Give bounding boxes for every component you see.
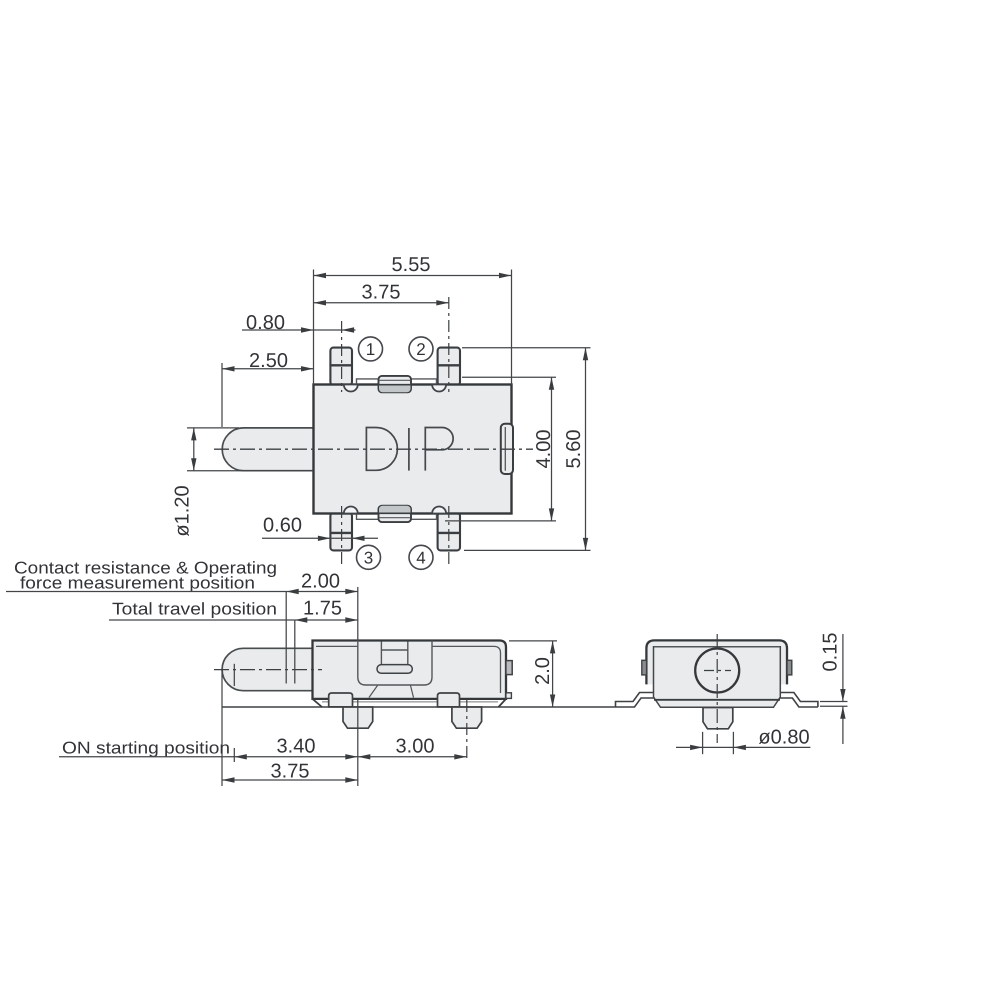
pin 4 xyxy=(438,513,460,550)
dimension Ø1.20 xyxy=(187,428,313,471)
dimension 0.15 xyxy=(820,634,848,744)
leader total travel xyxy=(109,619,295,621)
right terminal bracket xyxy=(780,693,818,708)
bottom face line xyxy=(322,701,498,703)
pin 2 centerline xyxy=(448,297,450,392)
svg-text:0.60: 0.60 xyxy=(263,515,302,537)
cover inner line top xyxy=(316,646,501,693)
ON start reference vertical xyxy=(233,748,235,762)
left terminal bracket xyxy=(616,693,655,708)
horizontal centerline (top view) xyxy=(214,448,533,450)
total travel position line xyxy=(294,620,296,684)
left solder pin (side view) xyxy=(343,707,373,728)
extension line shaft tip (top view) xyxy=(221,363,223,427)
dimension Ø0.80 xyxy=(676,732,810,754)
SIDE VIEW GROUP xyxy=(6,559,616,787)
dimension 3.40 xyxy=(234,754,357,759)
body bottom chamfer left xyxy=(313,699,323,707)
pin (end view) xyxy=(703,708,733,729)
svg-text:5.55: 5.55 xyxy=(392,254,431,276)
dimension 5.55 xyxy=(314,273,512,278)
DIP marking letter D xyxy=(366,428,397,471)
svg-text:4.00: 4.00 xyxy=(533,430,555,469)
dimension 2.50 xyxy=(222,366,314,371)
dimension 1.75 xyxy=(295,617,358,622)
pin 1 centerline xyxy=(341,321,343,392)
top center tab xyxy=(379,376,412,392)
svg-text:2: 2 xyxy=(416,340,425,359)
circle vertical centerline xyxy=(716,634,718,743)
svg-text:3.75: 3.75 xyxy=(362,282,401,304)
leader ON starting xyxy=(59,756,234,758)
notch at pin 3 xyxy=(344,507,358,514)
shaft centerline (side view) xyxy=(214,669,322,671)
pin 2 xyxy=(438,348,460,385)
svg-text:1.75: 1.75 xyxy=(303,598,342,620)
switch body (top view) xyxy=(314,385,512,514)
svg-text:Total travel position: Total travel position xyxy=(112,600,277,619)
svg-text:ø0.80: ø0.80 xyxy=(758,727,809,749)
circle horizontal center tick xyxy=(704,670,731,672)
svg-text:2.00: 2.00 xyxy=(301,571,340,593)
bottom edge step line xyxy=(357,514,437,520)
DIP marking letter P xyxy=(425,428,453,471)
svg-text:3.00: 3.00 xyxy=(396,736,435,758)
cover recess (U shape) xyxy=(358,641,432,686)
actuator shaft (side view) xyxy=(222,648,312,690)
TOP VIEW GROUP xyxy=(172,254,591,569)
shaft tip center tick xyxy=(233,664,235,686)
cover (end view) xyxy=(646,640,787,684)
svg-text:1: 1 xyxy=(366,340,375,359)
right boss xyxy=(438,693,460,707)
notch at pin 2 xyxy=(432,385,446,392)
right edge tab (side view) xyxy=(506,661,512,675)
svg-text:3.75: 3.75 xyxy=(271,761,310,783)
body (side view) xyxy=(313,641,507,699)
right solder pin (side view) xyxy=(452,707,482,728)
cover seam line (end view) xyxy=(654,646,780,648)
svg-text:3.40: 3.40 xyxy=(277,736,316,758)
right pin centerline xyxy=(466,700,468,762)
dimension 3.75 (top) xyxy=(314,300,449,305)
seating plane reference line xyxy=(222,706,616,708)
circled pin number 4 xyxy=(409,545,433,569)
dimension 0.60 xyxy=(262,536,378,541)
actuator circle (end view) xyxy=(695,649,739,693)
pin 3 centerline xyxy=(341,506,343,566)
body bottom edge (end view) xyxy=(654,699,780,701)
dimension 3.75 (bottom) xyxy=(222,777,358,782)
contact resistance position line xyxy=(285,592,287,684)
circled pin number 2 xyxy=(409,337,433,361)
dimension 2.00 xyxy=(286,589,358,594)
extension line body left edge xyxy=(313,270,315,385)
body base (end view) xyxy=(654,647,781,708)
recess lower flank left xyxy=(369,686,378,698)
circled pin number 1 xyxy=(359,337,383,361)
svg-text:3: 3 xyxy=(364,549,373,568)
body bottom chamfer right xyxy=(499,699,507,707)
bottom center tab xyxy=(379,506,412,522)
button stadium xyxy=(377,665,412,674)
svg-text:2.0: 2.0 xyxy=(532,657,554,685)
svg-text:0.15: 0.15 xyxy=(820,633,842,672)
notch at pin 4 xyxy=(432,507,446,514)
DIP marking letter I xyxy=(408,428,410,471)
svg-text:5.60: 5.60 xyxy=(563,430,585,469)
bottom right small lug xyxy=(506,693,512,699)
dimension 0.80 xyxy=(242,327,356,332)
left ear tab xyxy=(642,660,647,675)
svg-text:4: 4 xyxy=(416,549,425,568)
pin 4 centerline xyxy=(448,506,450,566)
svg-text:force measurement position: force measurement position xyxy=(20,574,255,593)
svg-text:2.50: 2.50 xyxy=(249,350,288,372)
left boss xyxy=(329,693,353,707)
dimension 3.00 xyxy=(358,754,467,759)
dimension 5.60 xyxy=(462,348,591,551)
svg-text:ø1.20: ø1.20 xyxy=(172,485,194,536)
svg-text:0.80: 0.80 xyxy=(246,312,285,334)
pin 1 xyxy=(330,348,352,385)
notch at pin 1 xyxy=(344,385,358,392)
extension line body right edge xyxy=(511,270,513,385)
END VIEW GROUP xyxy=(616,633,848,755)
right side bump xyxy=(501,424,513,474)
recess lower flank right xyxy=(411,686,414,698)
dimension 4.00 xyxy=(445,377,556,521)
shaft tip reference vertical xyxy=(221,670,223,786)
right ear tab xyxy=(787,660,792,675)
leader contact resistance xyxy=(6,591,286,593)
svg-text:ON starting position: ON starting position xyxy=(62,739,230,758)
top edge step line xyxy=(357,379,437,385)
actuator shaft (top view) xyxy=(222,428,313,471)
circled pin number 3 xyxy=(357,545,381,569)
pin 3 xyxy=(330,513,352,550)
button slot xyxy=(381,642,407,666)
dimension 2.0 xyxy=(509,641,557,707)
pin 3 reference vertical xyxy=(357,587,359,641)
